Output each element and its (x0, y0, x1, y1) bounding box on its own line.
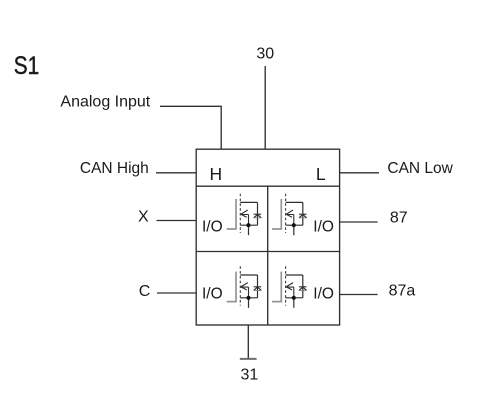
svg-text:87a: 87a (389, 283, 416, 300)
svg-text:Analog Input: Analog Input (60, 94, 150, 111)
svg-text:31: 31 (241, 367, 259, 384)
svg-text:CAN Low: CAN Low (387, 160, 453, 177)
svg-text:87: 87 (390, 209, 408, 226)
svg-text:I/O: I/O (202, 285, 223, 302)
svg-text:I/O: I/O (202, 219, 223, 236)
svg-text:CAN High: CAN High (80, 160, 149, 177)
svg-text:I/O: I/O (313, 285, 334, 302)
svg-text:C: C (139, 283, 151, 300)
svg-text:H: H (210, 164, 223, 184)
svg-text:S1: S1 (14, 52, 39, 80)
svg-text:I/O: I/O (313, 219, 334, 236)
svg-text:L: L (316, 164, 326, 184)
svg-text:X: X (138, 209, 149, 226)
svg-text:30: 30 (256, 45, 274, 62)
